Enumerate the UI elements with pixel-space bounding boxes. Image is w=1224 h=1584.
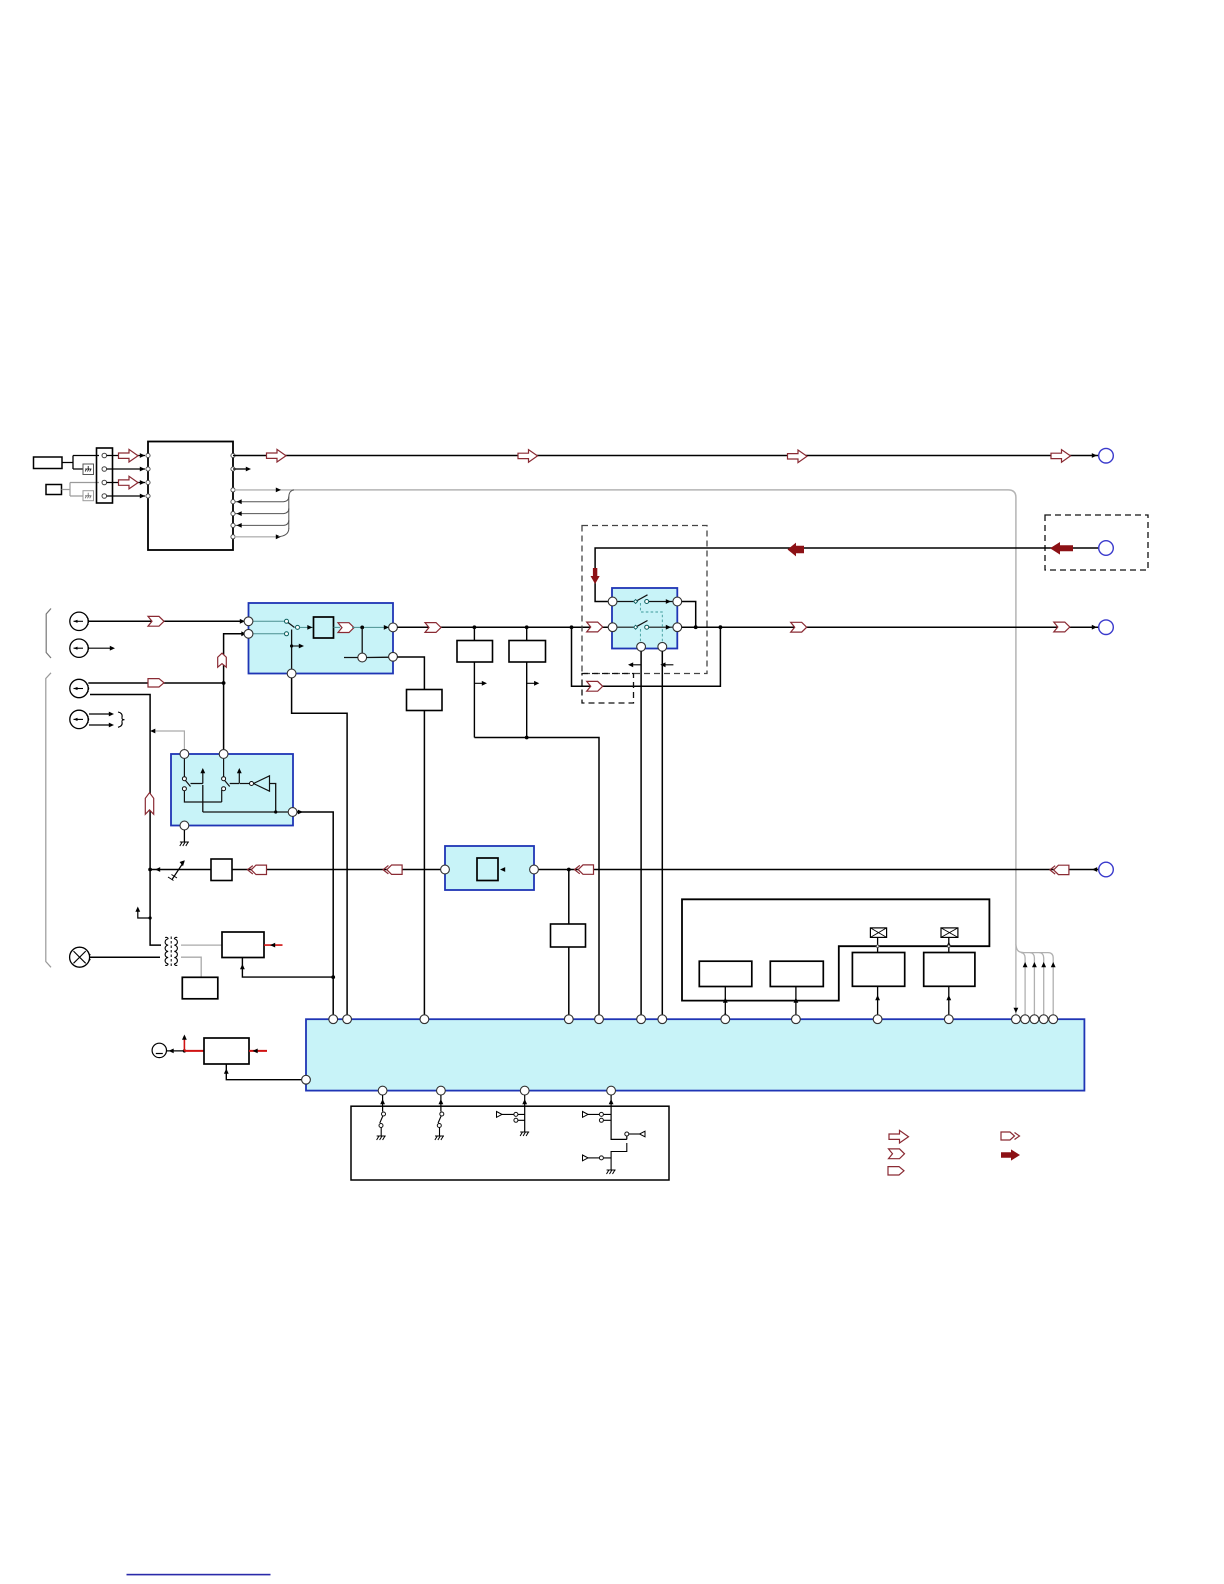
box B wires bbox=[525, 627, 540, 739]
up arrow A15 bbox=[145, 793, 153, 815]
SECTION: record switch and right terminals bbox=[397, 515, 1148, 1015]
mic block X2 bbox=[171, 754, 293, 826]
junction dot boxB bbox=[525, 625, 529, 629]
left arrow LA1 bbox=[248, 865, 267, 874]
box H1 bbox=[699, 961, 752, 986]
switch box X3 bbox=[612, 588, 677, 649]
X3 bottom verticals to DSP bbox=[641, 651, 662, 1014]
crystal X-box 2 bbox=[941, 928, 958, 938]
selector box X1 bbox=[249, 603, 394, 674]
signal arrow A2 bbox=[119, 476, 139, 489]
X3 row1 wires bbox=[613, 595, 678, 604]
SECTION: DSP and bottom bbox=[127, 899, 1085, 1575]
DSP top circles bbox=[329, 1015, 338, 1024]
terminal T1 bbox=[1099, 448, 1114, 463]
wire S1 to connector bbox=[62, 456, 99, 470]
terminal T2 bbox=[1099, 541, 1114, 556]
bus line b4 bbox=[235, 520, 289, 528]
up arrow A14 bbox=[218, 653, 227, 667]
X1 switch blade bbox=[288, 623, 295, 628]
X2 top circle 2 bbox=[219, 750, 228, 759]
terminal T4 bbox=[1099, 862, 1114, 877]
J switch 3 bbox=[497, 1095, 530, 1136]
red wire to box I bbox=[184, 1050, 204, 1052]
DSP left circle bbox=[302, 1075, 311, 1084]
box S2 bbox=[46, 485, 62, 495]
SECTION: top tuner/control block bbox=[34, 442, 1114, 945]
switch box J bbox=[351, 1106, 669, 1180]
X1 inner vertical to lower node bbox=[361, 627, 363, 657]
X3 top out loop bbox=[682, 602, 698, 630]
DSP box bbox=[306, 1019, 1084, 1090]
CN1 pin 3 bbox=[102, 480, 107, 485]
signal arrow A6 bbox=[587, 622, 603, 632]
CN1 pin 1 bbox=[102, 453, 107, 458]
bracket B2 bbox=[46, 673, 51, 968]
bus line b2 bbox=[235, 497, 289, 505]
transformer TR1 bbox=[165, 937, 177, 968]
stub arrows from J4 bbox=[89, 712, 114, 728]
signal arrow A5 bbox=[425, 623, 441, 633]
bus line b3 bbox=[235, 508, 289, 516]
X1 wire pivot to gain box bbox=[300, 625, 314, 630]
X3 row2 wires bbox=[613, 621, 678, 630]
attenuator symbol bbox=[168, 860, 185, 880]
box E bbox=[182, 977, 218, 999]
jack J4 bbox=[70, 710, 89, 728]
headphone line main bbox=[232, 869, 1099, 871]
filled down arrow F3 bbox=[591, 568, 600, 584]
wire J3 tap down bbox=[90, 695, 150, 870]
X1 out arrow bbox=[338, 623, 354, 633]
X2 inner wires bbox=[203, 784, 293, 813]
box C (buffer) bbox=[407, 690, 443, 711]
U1 left pin circles bbox=[146, 453, 150, 498]
red branch up bbox=[182, 1035, 187, 1051]
stub wire U1 pin2 bbox=[233, 467, 251, 472]
signal arrow A8 bbox=[791, 622, 807, 632]
left arrow LA2 bbox=[383, 865, 402, 874]
X1 edge circle in R bbox=[244, 629, 253, 638]
X3 bottom circle 1 bbox=[637, 642, 646, 651]
SECTION: source jacks and selector bbox=[46, 603, 398, 1015]
H4 wires bbox=[946, 937, 951, 1014]
main line selector to switch bbox=[397, 626, 608, 628]
X2 bottom circle bbox=[180, 821, 189, 830]
X3 edge circles bbox=[608, 597, 617, 606]
brace after J4 bbox=[118, 712, 125, 727]
dashed box D1 bbox=[582, 526, 707, 674]
signal arrow A3 bbox=[148, 616, 164, 626]
X1 contact 1 bbox=[285, 619, 289, 623]
wire power to node bbox=[167, 1049, 187, 1054]
X1 lower node circle bbox=[358, 653, 367, 662]
gray bus fan bbox=[1014, 944, 1056, 1015]
X2 top circle 1 bbox=[180, 750, 189, 759]
wire J1 to selector bbox=[88, 619, 248, 624]
mic line elbow stub bbox=[135, 907, 151, 920]
J switch 2 bbox=[435, 1095, 444, 1140]
X3 bottom circle 2 bbox=[658, 642, 667, 651]
CN1 pin 2 bbox=[102, 467, 107, 472]
bracket B1 bbox=[46, 609, 51, 659]
main line to right terminal bbox=[682, 625, 1099, 630]
X1 mute vertical bbox=[290, 630, 304, 674]
U1 right pin circles bbox=[231, 453, 235, 539]
jack J1 (line in L) bbox=[70, 612, 89, 630]
headphone line left end bbox=[148, 867, 211, 872]
gray link to mic block bbox=[150, 729, 184, 750]
SECTION: attenuator row and power bbox=[70, 846, 1114, 1080]
signal arrow A7 bbox=[587, 681, 603, 691]
signal arrow A4 bbox=[148, 679, 164, 687]
signal arrow A13 bbox=[1051, 450, 1071, 463]
gray wire secondary top bbox=[181, 944, 222, 946]
legend arrow L3 bbox=[888, 1167, 904, 1175]
X1 edge circle out aux bbox=[389, 652, 398, 661]
red line out of box I bbox=[249, 1049, 267, 1054]
signal arrow A12 bbox=[788, 450, 808, 463]
red line from box D bbox=[264, 943, 283, 948]
signal arrow A10 bbox=[267, 449, 287, 462]
legend arrow L2 bbox=[889, 1149, 905, 1159]
mute tab 2 bbox=[660, 662, 673, 667]
H2 wire to DSP bbox=[794, 987, 799, 1015]
connector CN1 bbox=[97, 448, 113, 503]
box A wires bbox=[474, 627, 487, 737]
signal arrow A1 bbox=[119, 449, 139, 462]
bus line b5 bbox=[235, 529, 289, 540]
ground box G2 bbox=[83, 491, 94, 501]
filled arrow F1 bbox=[788, 543, 805, 557]
block U1 (main board) bbox=[148, 442, 233, 551]
X1 gain box bbox=[314, 617, 334, 638]
X1 pivot bbox=[296, 625, 300, 629]
box A (level) bbox=[457, 641, 493, 663]
wire lamp to transformer bbox=[90, 956, 160, 958]
wire X1 bottom to DSP bbox=[292, 678, 348, 1015]
gray control bus bbox=[294, 490, 1016, 944]
crystal X-box 1 bbox=[870, 928, 886, 938]
H3 wires bbox=[875, 937, 880, 1014]
X2 ground bbox=[180, 830, 189, 846]
box C wires bbox=[397, 657, 424, 1015]
H1 wire to DSP bbox=[723, 987, 728, 1018]
J switch 1 bbox=[377, 1095, 386, 1140]
left arrow LA4 bbox=[1050, 865, 1069, 874]
box F drop bbox=[567, 868, 571, 1015]
box S1 (remote sensor) bbox=[34, 457, 63, 469]
wire pin1 to U1 bbox=[107, 453, 145, 458]
wire U1 out top to terminal bbox=[233, 455, 1099, 457]
dashed box D3 (connector) bbox=[1045, 515, 1148, 570]
bypass loop bbox=[572, 627, 721, 686]
dashed box D2 bbox=[582, 674, 634, 704]
arrowhead into T4 bbox=[1092, 867, 1097, 872]
wire pin3 to U1 bbox=[107, 480, 145, 485]
box H2 bbox=[770, 961, 823, 986]
X4 circle L bbox=[441, 865, 450, 874]
stub arrow from J2 bbox=[89, 646, 115, 651]
signal arrow A9 bbox=[1054, 622, 1070, 632]
legend arrow L4 bbox=[1001, 1132, 1020, 1140]
power jack circle bbox=[152, 1043, 166, 1057]
wire node to selector pin2 and down to mic block bbox=[224, 631, 247, 754]
wire AB join to DSP bbox=[474, 738, 599, 1015]
control box G outline bbox=[682, 899, 989, 1000]
attenuator box bbox=[211, 859, 232, 881]
mute tab 1 bbox=[628, 662, 641, 667]
left arrow LA3 bbox=[575, 865, 594, 874]
X2 switch 2 bbox=[222, 759, 242, 803]
X2 right circle bbox=[288, 808, 297, 817]
box I to DSP bbox=[224, 1064, 302, 1080]
X4 arrowhead bbox=[500, 867, 505, 872]
wire to transformer bbox=[150, 870, 161, 946]
box B (level) bbox=[509, 641, 546, 663]
record in wire bbox=[595, 548, 1098, 602]
wire pin4 to U1 bbox=[107, 494, 145, 499]
X4 circle R bbox=[530, 865, 539, 874]
X1 contact 2 bbox=[285, 632, 289, 636]
legend arrow L1 bbox=[889, 1130, 909, 1143]
box H4 bbox=[924, 953, 975, 987]
legend arrow L5 bbox=[1001, 1149, 1020, 1160]
X1 edge circle bottom bbox=[287, 669, 296, 678]
X1 edge circle out main bbox=[389, 623, 398, 632]
terminal T3 bbox=[1099, 620, 1114, 635]
box I (DC-DC) bbox=[204, 1038, 249, 1064]
X1 edge circle in L bbox=[244, 617, 253, 626]
signal arrow A11 bbox=[518, 450, 538, 463]
X1 internal throw line 2 bbox=[249, 633, 286, 635]
X4 inner square bbox=[477, 858, 498, 881]
X2 amp triangle bbox=[240, 776, 270, 791]
wire S2 (gray) bbox=[62, 483, 100, 497]
X1 internal throw line 1 bbox=[249, 620, 286, 622]
jack J3 bbox=[70, 679, 89, 697]
X1 lower wires bbox=[344, 656, 393, 658]
box F bbox=[551, 924, 586, 947]
DSP bottom circles bbox=[378, 1086, 387, 1095]
wire J3 to node bbox=[88, 681, 225, 685]
J switch 4 bbox=[583, 1095, 646, 1174]
X2 out wire to DSP bbox=[297, 810, 333, 1015]
junction dot bypass bbox=[570, 625, 574, 629]
X2 switch 1 bbox=[182, 759, 221, 803]
bus merge channel bbox=[289, 490, 294, 529]
bus line b1 bbox=[235, 488, 294, 493]
filled arrow F2 bbox=[1050, 542, 1073, 555]
X1 junction dot bbox=[360, 626, 364, 630]
gray wire secondary bottom bbox=[181, 957, 201, 977]
box D (regulator) bbox=[222, 932, 264, 958]
footer underline bbox=[127, 1574, 271, 1576]
ground box G1 bbox=[83, 464, 94, 475]
X3 dashed links bbox=[640, 603, 662, 643]
jack J2 (line in R) bbox=[70, 639, 89, 657]
junction dot boxA bbox=[473, 625, 477, 629]
EQ box X4 bbox=[445, 846, 534, 890]
box D to DSP feed wire bbox=[240, 958, 335, 979]
wire pin2 to U1 bbox=[107, 467, 145, 472]
X1 wire to right edge bbox=[334, 625, 394, 630]
lamp circle bbox=[70, 947, 91, 967]
arrowhead into terminal bbox=[1092, 453, 1097, 458]
CN1 pin 4 bbox=[102, 494, 107, 499]
box H3 bbox=[852, 953, 904, 987]
